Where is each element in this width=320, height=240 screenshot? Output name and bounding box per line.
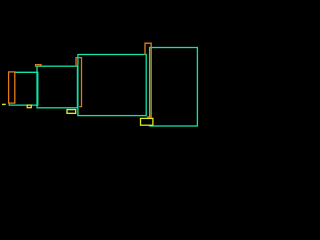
pad Y3 (yellow box at junction 3) xyxy=(141,118,153,125)
box B3 (teal, third/middle) xyxy=(78,55,146,116)
pad Y1 (yellow box at junction 1) xyxy=(27,105,31,108)
box B1 (teal, smallest, left; left edge hidden behind orange M0) xyxy=(9,72,38,105)
box B2 (teal, second) xyxy=(37,66,77,108)
pad Y0 (small yellow bar, far left) xyxy=(2,104,6,105)
marker M3 (orange bracket at junction 3) xyxy=(145,43,151,117)
marker M1 (orange top bracket at junction 1) xyxy=(36,65,41,67)
pad Y2 (yellow box at junction 2) xyxy=(67,110,76,114)
marker M2 (orange bracket at junction 2) xyxy=(76,58,82,107)
marker M0 (orange rectangle, far left) xyxy=(9,72,15,103)
box B4 (teal, largest, right) xyxy=(150,48,198,127)
